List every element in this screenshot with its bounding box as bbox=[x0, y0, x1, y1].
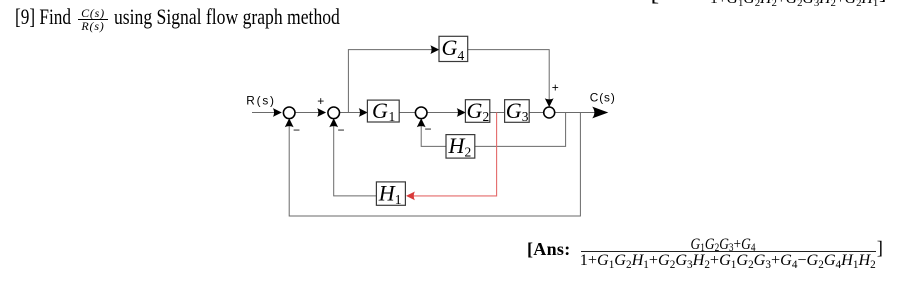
svg-text:H: H bbox=[378, 181, 396, 206]
wire sum3 to G2 bbox=[427, 112, 462, 114]
wire H1 to sum2 bbox=[334, 122, 377, 196]
svg-text:R(s): R(s) bbox=[246, 94, 275, 108]
block G1 bbox=[367, 98, 399, 124]
svg-text:3: 3 bbox=[522, 109, 529, 124]
arrowhead red into H1 bbox=[406, 192, 415, 201]
arrowhead into G4 bbox=[430, 45, 439, 54]
summing junction S4 bbox=[544, 107, 555, 118]
title: problem statement bbox=[15, 4, 71, 30]
summing junction S1 bbox=[283, 107, 295, 119]
summing junction S2 bbox=[328, 107, 340, 119]
arrowhead into sum4 from top bbox=[545, 98, 554, 107]
wire branch up to G4 bbox=[348, 50, 436, 113]
arrowhead into G1 bbox=[359, 108, 368, 117]
wire G2 to G3 bbox=[490, 112, 505, 114]
wire red tap G2-G3 down bbox=[409, 113, 497, 196]
svg-text:G: G bbox=[372, 98, 388, 123]
wire tap to H2 bbox=[475, 113, 566, 147]
svg-text:−: − bbox=[338, 123, 345, 137]
block H1 bbox=[376, 181, 405, 208]
wire input R(s) to sum1 bbox=[252, 112, 280, 114]
svg-text:2: 2 bbox=[465, 145, 472, 160]
wire H2 to sum3 bbox=[421, 122, 446, 147]
wire outer feedback bbox=[289, 113, 580, 217]
wire G1 to sum3 bbox=[399, 112, 415, 114]
svg-text:H: H bbox=[448, 133, 466, 158]
summing junction S3 bbox=[415, 107, 427, 119]
svg-text:−: − bbox=[293, 123, 300, 137]
wire sum1 to sum2 bbox=[295, 112, 324, 114]
wire G3 to sum4 bbox=[529, 112, 544, 114]
svg-text:G: G bbox=[506, 98, 522, 123]
svg-text:−: − bbox=[425, 122, 432, 136]
svg-text:G: G bbox=[467, 98, 483, 123]
top-right cut-off formula from previous problem bbox=[651, 0, 660, 7]
svg-text:2: 2 bbox=[483, 109, 490, 124]
arrowhead into sum1 bbox=[273, 108, 282, 117]
arrowhead into sum2 from bottom bbox=[329, 118, 338, 127]
block G2 bbox=[465, 98, 489, 124]
block G4 bbox=[439, 35, 468, 63]
arrowhead output C(s) bbox=[592, 107, 608, 119]
svg-text:1: 1 bbox=[389, 109, 396, 124]
arrowhead into sum3 from bottom bbox=[417, 118, 426, 127]
arrowhead into G2 bbox=[457, 108, 466, 117]
svg-text:+: + bbox=[552, 80, 559, 94]
arrowhead into sum2 bbox=[317, 108, 326, 117]
block H2 bbox=[446, 133, 475, 160]
wire output sum4 to C(s) bbox=[555, 112, 605, 114]
bottom answer formula bbox=[527, 239, 571, 260]
svg-text:+: + bbox=[317, 94, 324, 108]
svg-text:4: 4 bbox=[458, 48, 465, 63]
arrowhead into sum1 from bottom bbox=[285, 118, 294, 127]
svg-text:G: G bbox=[442, 35, 458, 60]
block G3 bbox=[505, 98, 530, 124]
wire G4 to sum4 bbox=[468, 50, 550, 104]
svg-text:C(s): C(s) bbox=[590, 91, 616, 105]
wire sum2 to G1 bbox=[340, 112, 365, 114]
svg-text:1: 1 bbox=[395, 192, 402, 207]
